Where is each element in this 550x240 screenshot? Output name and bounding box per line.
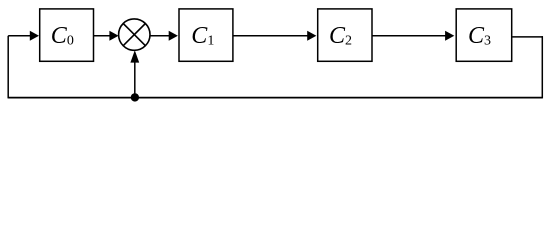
wire C1 to C2 — [233, 35, 308, 37]
wire C2 to C3 — [373, 35, 447, 37]
arrowhead into C1 — [169, 31, 178, 41]
block C2 — [318, 9, 372, 61]
junction dot — [131, 93, 139, 101]
wire right vertical — [541, 36, 543, 98]
multiplier X — [123, 24, 145, 46]
block C1 — [179, 9, 233, 61]
wire feedback left vertical — [7, 36, 9, 99]
block C0 — [40, 9, 94, 61]
arrowhead into C0 — [30, 31, 39, 41]
arrowhead into C2 — [307, 31, 316, 41]
wire input horizontal into C0 — [8, 35, 31, 37]
wire output from C3 — [512, 36, 543, 38]
wire bottom feedback — [8, 97, 542, 99]
block C3 — [456, 9, 512, 61]
arrowhead into multiplier — [109, 31, 118, 41]
arrowhead into C3 — [445, 31, 454, 41]
arrowhead up into multiplier — [130, 50, 139, 62]
multiplier circle — [119, 19, 150, 50]
wire multiplier to C1 — [150, 35, 170, 37]
wire C0 to multiplier — [94, 35, 111, 37]
wire junction to multiplier vertical — [134, 61, 136, 98]
